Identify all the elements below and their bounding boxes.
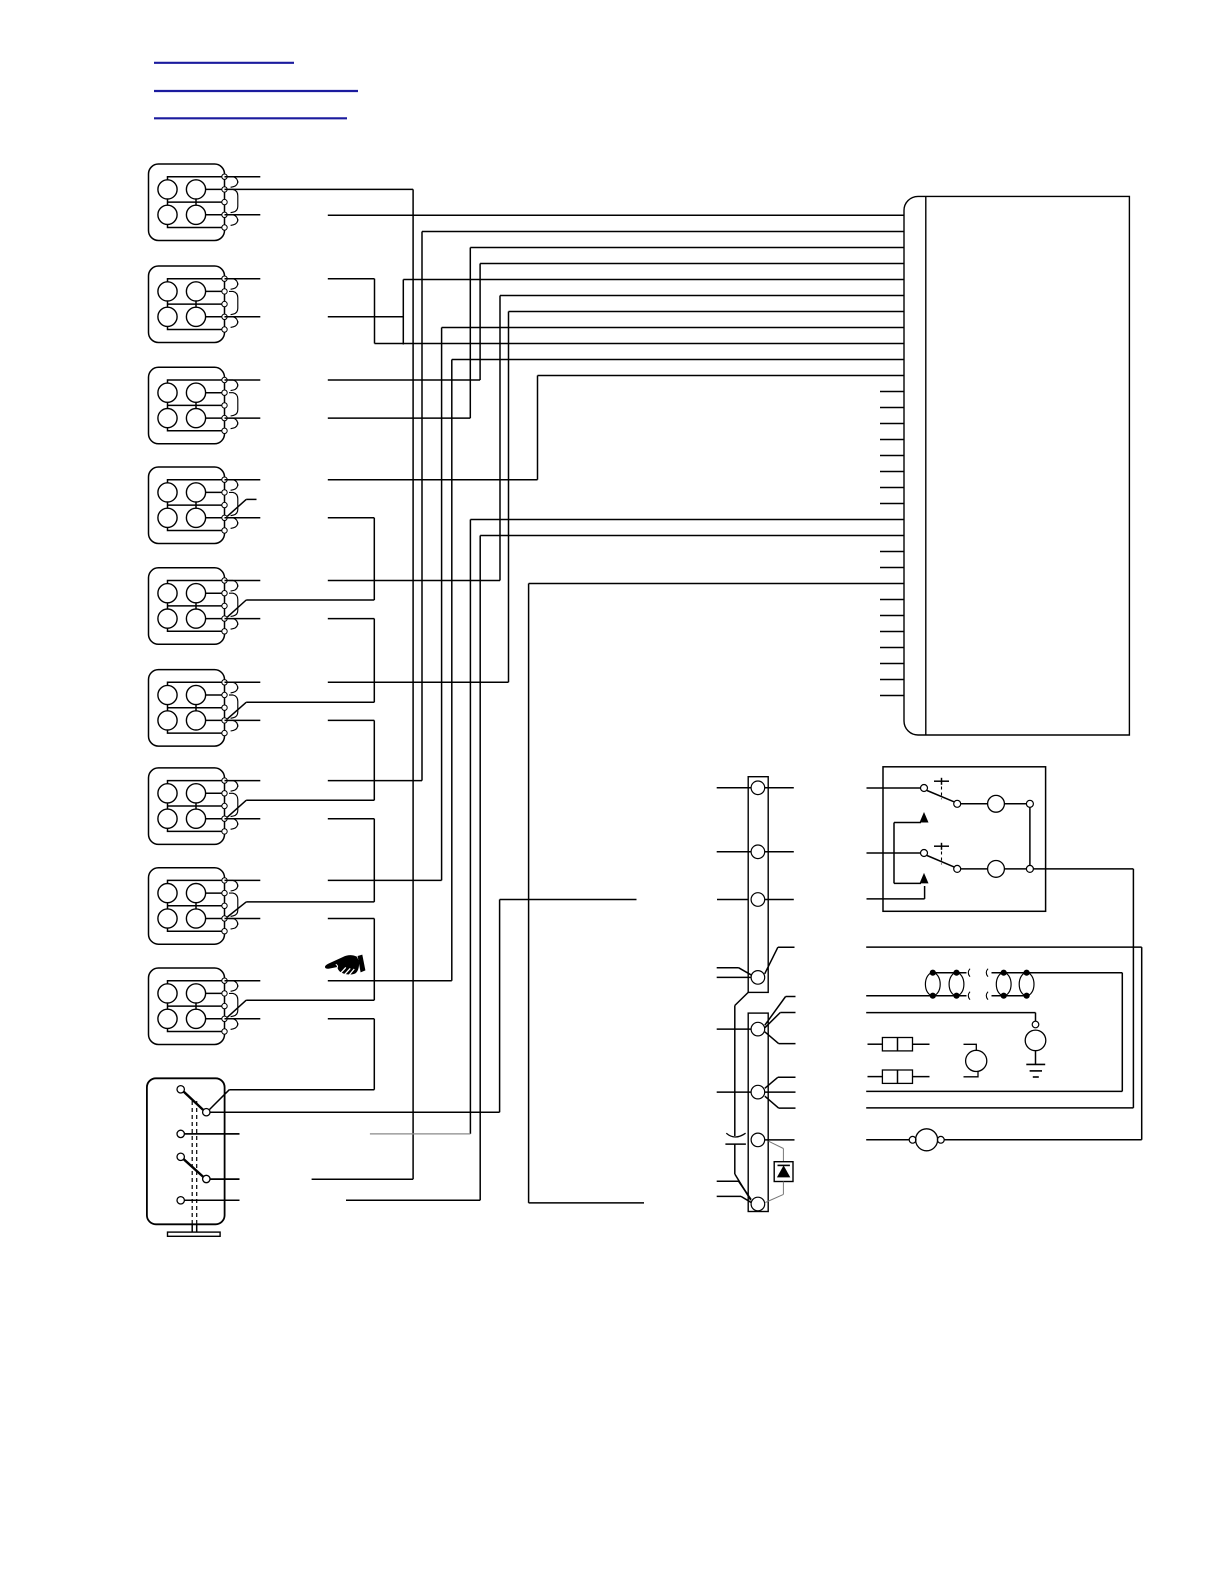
wire chain block6 pin4 to block7 pin4 (225, 720, 375, 817)
TS1 pin1 wires (717, 787, 794, 789)
thermostat (964, 1044, 987, 1077)
wire net K2 to block3 pin4 (225, 248, 905, 419)
wire net K19 to switch contact C (184, 520, 904, 1134)
relay rows joining wire (1029, 807, 1031, 865)
wire net K23 to terminal strip2 pin4 (529, 584, 904, 1203)
wire relay common from TS1 pin3 (867, 886, 925, 899)
wire chain block5 pin4 to block6 pin4 (225, 619, 375, 719)
wire block4 pin4 diagonal stub (227, 499, 256, 516)
switch S1 pole1 wiper B (203, 1109, 210, 1116)
wire net K8 block2 pin1 (225, 279, 905, 344)
diode D1 from TS2 pin3 to pin4 (765, 1141, 793, 1202)
link underline 2 (154, 90, 358, 92)
switch S1 mechanical linkage dashed (192, 1101, 197, 1224)
heater elements row (866, 969, 1122, 1092)
connector CN8 (149, 868, 238, 945)
connector CN5 (149, 568, 238, 645)
wire block1 pin1 stub (225, 176, 261, 178)
wire net K9 to block9 pin1 (225, 360, 905, 981)
wire chain block8 pin4 to block9 pin4 (225, 919, 375, 1018)
switch S1 pole1 arm (184, 1092, 203, 1110)
terminal strip TS1 (748, 777, 768, 993)
switch S1 pole2 arm (184, 1159, 203, 1176)
switch S1 mounting stand (168, 1224, 221, 1236)
relay contact row 2 (867, 843, 1034, 878)
main board connector P1 (904, 196, 1129, 735)
TS2 pin2 wires (717, 1077, 796, 1108)
connector CN7 (149, 768, 238, 845)
wire net K20 to switch contact F (184, 536, 904, 1201)
connector CN9 (149, 968, 238, 1045)
wire net K0 block1 pin4 to P1 (225, 214, 905, 217)
connector CN4 (149, 467, 238, 544)
relay contact row 1 (867, 778, 1034, 812)
switch S1 pole2 contact D (177, 1153, 184, 1160)
wire chain block4 pin4 to block5 pin4 (225, 518, 375, 617)
wire relay output to bottom rail (866, 869, 1133, 1108)
power switch S1 box (147, 1078, 225, 1224)
TS1 pin4 wires (717, 947, 795, 977)
wire net K3 to block3 pin1 (225, 264, 905, 381)
wire net K1 to block7 pin1 (225, 232, 905, 781)
TS2 pin1 wires (717, 997, 796, 1044)
P1 short pin stubs (880, 392, 904, 696)
switch S1 contact C (177, 1130, 240, 1137)
fuse F2 (868, 1070, 930, 1083)
motor M1 (866, 1129, 1141, 1151)
lamp with ground (866, 1013, 1046, 1077)
wire net K10 to block4 pin1 (225, 376, 905, 480)
relay box (883, 767, 1046, 912)
connector CN3 (149, 367, 238, 444)
relay armature arrows and bracket (894, 812, 929, 883)
wire net K6 to block6 pin1 (225, 312, 905, 683)
wire chain block9 pin4 to switch SW1 wiper (210, 1019, 375, 1110)
TS2 pin3 wire to motor (765, 1139, 795, 1141)
terminal strip TS2 (748, 1013, 768, 1211)
capacitor C1 chain from TS1 to TS2 pin4 (725, 992, 750, 1200)
switch S1 pole1 contact A (177, 1086, 184, 1093)
connector CN1 (149, 164, 238, 241)
TS1 pin3 right wire (765, 899, 794, 901)
link underline 3 (154, 117, 347, 119)
wire net K5 to block5 pin1 (225, 296, 905, 581)
TS2 pin4 upper stub (717, 1181, 751, 1199)
wire chain block7 pin4 to block8 pin4 (225, 819, 375, 917)
connector CN2 (149, 266, 238, 343)
switch S1 pole2 wiper E (203, 1175, 240, 1182)
pointing hand icon (325, 955, 365, 975)
connector CN6 (149, 670, 238, 747)
switch S1 contact F (177, 1197, 240, 1204)
wire net K7 to block8 pin1 (225, 328, 905, 881)
wire net K4 block2 pin4 (225, 280, 905, 345)
TS1 pin2 wires (717, 851, 794, 853)
wire top rail to motor (866, 947, 1141, 1140)
wire switch B to terminal strip1 pin3 (210, 900, 748, 1113)
link underline 1 (154, 62, 294, 64)
fuse F1 (868, 1038, 930, 1051)
wire net block1 pin2 to switch SW2 wiper (210, 189, 413, 1179)
